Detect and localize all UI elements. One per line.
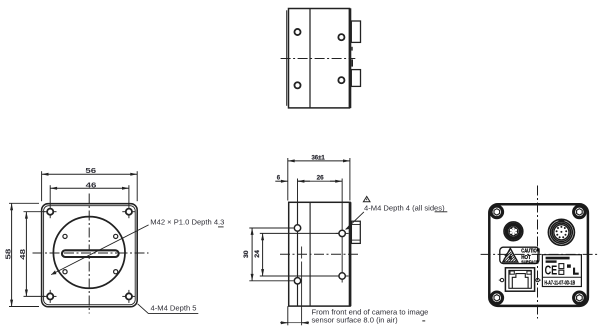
svg-text:24: 24 [254, 250, 260, 258]
svg-text:sensor surface 8.0 (in air): sensor surface 8.0 (in air) [312, 315, 399, 324]
svg-text:SURFACE: SURFACE [521, 259, 538, 265]
svg-text:CAUTION: CAUTION [521, 248, 540, 254]
svg-text:H-A7-11-07-0D-1B: H-A7-11-07-0D-1B [544, 280, 575, 286]
svg-text:M42 × P1.0 Depth 4.3: M42 × P1.0 Depth 4.3 [150, 218, 224, 227]
svg-text:46: 46 [86, 181, 97, 189]
svg-text:4-M4 Depth 4 (all sides): 4-M4 Depth 4 (all sides) [364, 203, 445, 212]
svg-text:4-M4 Depth 5: 4-M4 Depth 5 [151, 304, 197, 313]
svg-text:30: 30 [243, 250, 249, 258]
svg-text:56: 56 [85, 167, 96, 175]
svg-text:36±1: 36±1 [311, 155, 325, 161]
svg-text:48: 48 [18, 249, 26, 260]
svg-text:CE: CE [545, 264, 558, 278]
svg-text:58: 58 [4, 248, 12, 259]
svg-text:26: 26 [317, 175, 325, 182]
